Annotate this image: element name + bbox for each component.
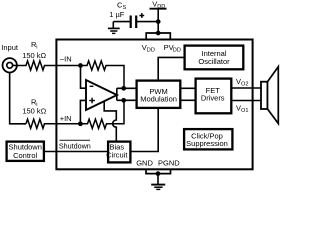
svg-text:Circuit: Circuit bbox=[106, 151, 128, 160]
svg-text:+IN: +IN bbox=[60, 114, 72, 123]
svg-text:GND: GND bbox=[136, 159, 153, 168]
svg-text:Input: Input bbox=[1, 43, 19, 52]
svg-text:i: i bbox=[36, 44, 37, 50]
svg-text:DD: DD bbox=[173, 47, 181, 53]
svg-text:PGND: PGND bbox=[158, 159, 180, 168]
svg-text:–IN: –IN bbox=[60, 54, 72, 63]
svg-text:O1: O1 bbox=[241, 108, 248, 114]
svg-text:150 kΩ: 150 kΩ bbox=[22, 107, 46, 116]
svg-text:Modulation: Modulation bbox=[140, 95, 177, 104]
svg-text:O2: O2 bbox=[241, 82, 248, 88]
svg-text:DD: DD bbox=[147, 47, 155, 53]
svg-text:1 µF: 1 µF bbox=[109, 10, 125, 19]
svg-text:DD: DD bbox=[157, 4, 165, 10]
svg-text:Drivers: Drivers bbox=[201, 94, 225, 103]
svg-text:Control: Control bbox=[13, 151, 38, 160]
svg-text:Oscillator: Oscillator bbox=[198, 57, 230, 66]
svg-text:Suppression: Suppression bbox=[186, 139, 228, 148]
svg-text:150 kΩ: 150 kΩ bbox=[22, 51, 46, 60]
svg-text:Shutdown: Shutdown bbox=[59, 141, 91, 150]
